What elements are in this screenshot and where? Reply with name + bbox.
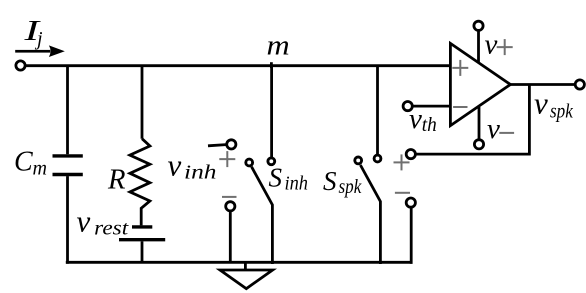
- v- terminal: [474, 140, 483, 149]
- svg-text:S: S: [269, 163, 283, 193]
- switch S_inh blade and wire to bottom rail: [252, 167, 273, 264]
- svg-text:R: R: [107, 164, 126, 195]
- input terminal: [16, 61, 25, 70]
- capacitor Cm: [53, 156, 83, 175]
- svg-text:v: v: [409, 103, 422, 135]
- wire battery to bottom rail: [141, 241, 144, 262]
- label v_th: [409, 103, 437, 136]
- wire node m to S_spk contact: [376, 66, 379, 155]
- minus sign (gray) feedback source: [395, 192, 410, 194]
- op-amp U1 comparator triangle: [450, 43, 510, 125]
- switch S_spk fixed contact: [374, 155, 381, 162]
- wire v_th to op-amp inverting input: [412, 105, 450, 108]
- switch S_inh fixed contact: [268, 158, 275, 165]
- svg-text:m: m: [33, 157, 48, 179]
- label S_spk: [323, 166, 362, 198]
- node m junction tick: [270, 62, 273, 68]
- feedback minus terminal: [406, 198, 415, 207]
- svg-text:v: v: [487, 113, 500, 145]
- svg-text:S: S: [323, 166, 337, 196]
- wire op-amp output: [510, 83, 575, 86]
- minus sign (gray) v_inh: [222, 196, 237, 198]
- v_th terminal: [403, 102, 412, 111]
- svg-text:v: v: [534, 85, 548, 120]
- plus sign (gray) op-amp noninverting: [452, 60, 468, 76]
- switch S_spk blade contact: [355, 157, 362, 164]
- node m label: [267, 30, 290, 61]
- wire node m to S_inh contact: [270, 66, 273, 157]
- v_inh minus terminal: [226, 202, 235, 211]
- feedback plus terminal: [406, 150, 415, 159]
- wire v+ supply lead: [477, 30, 480, 63]
- svg-text:spk: spk: [339, 176, 363, 198]
- plus sign (gray) v_inh: [219, 151, 235, 167]
- svg-text:inh: inh: [285, 172, 309, 194]
- wire R branch upper: [141, 66, 144, 139]
- svg-text:m: m: [267, 30, 290, 61]
- minus sign (gray) of v- label: [499, 132, 514, 134]
- svg-text:v: v: [168, 148, 182, 183]
- label Ij: [23, 16, 43, 50]
- plus sign (gray) feedback source: [394, 154, 410, 170]
- bottom rail wire: [66, 261, 413, 264]
- wire Cm branch lower: [66, 176, 69, 264]
- wire top rail from input to op-amp noninverting input: [25, 64, 451, 67]
- minus sign (gray) op-amp inverting: [453, 106, 467, 108]
- switch S_spk blade and wire to bottom rail: [360, 165, 380, 264]
- label v_spk: [534, 85, 574, 122]
- label Cm: [14, 146, 47, 179]
- battery v_rest: [119, 227, 165, 240]
- switch S_inh blade contact: [246, 159, 253, 166]
- svg-text:C: C: [14, 146, 33, 177]
- svg-text:rest: rest: [94, 218, 129, 240]
- ground: [220, 262, 273, 288]
- current arrow for Ij: [15, 45, 65, 57]
- output terminal v_spk: [575, 80, 584, 89]
- svg-text:inh: inh: [184, 162, 217, 184]
- plus sign (gray) of v+ label: [497, 39, 513, 55]
- label v_inh: [168, 148, 217, 184]
- svg-text:v: v: [485, 28, 498, 60]
- wire feedback plus to op-amp output: [415, 85, 529, 155]
- label S_inh: [269, 163, 309, 195]
- wire v_inh minus to bottom rail: [229, 211, 232, 262]
- label v+: [485, 28, 498, 60]
- label v_rest: [77, 204, 129, 240]
- svg-text:spk: spk: [550, 100, 574, 122]
- wire Cm branch upper: [66, 66, 69, 155]
- svg-text:th: th: [422, 114, 437, 136]
- wire feedback minus to bottom rail: [410, 207, 413, 264]
- svg-text:v: v: [77, 204, 91, 239]
- v_inh plus terminal: [227, 140, 236, 149]
- v+ terminal: [474, 21, 483, 30]
- label v-: [487, 113, 500, 145]
- label R: [107, 164, 126, 195]
- wire v- supply lead: [478, 107, 481, 140]
- v_inh plus lead wire: [208, 145, 226, 146]
- resistor R: [130, 139, 150, 226]
